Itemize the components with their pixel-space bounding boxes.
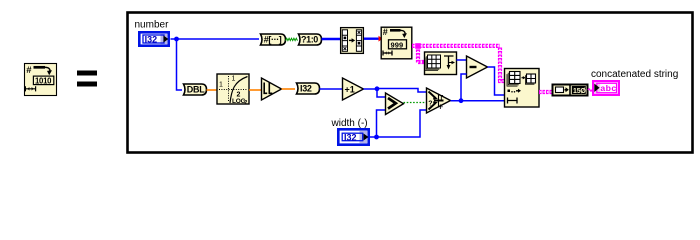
node: concatenate strings (compact) [553,84,588,97]
svg-text:I32: I32 [145,34,158,44]
svg-text:#[···]: #[···] [264,35,282,45]
svg-text:1010: 1010 [35,76,52,85]
svg-text:2: 2 [245,100,248,106]
node: Number To Boolean Array #[...] [261,34,286,45]
equals sign [77,71,97,87]
wire: branch down to DBL [177,39,183,90]
wire: DBL to log2 (orange) [207,89,218,91]
wire: floor to I32 (orange) [282,88,296,90]
svg-text:#: # [26,65,32,76]
junction dot [374,135,379,140]
junction dot [375,86,380,91]
terminal: width I32 control [338,129,368,144]
node: Subtract [467,56,488,78]
svg-text:DBL: DBL [187,85,205,95]
wire: string array chain from 999 output [412,43,505,81]
svg-text:F: F [440,105,444,111]
svg-text:I32: I32 [344,133,357,143]
wire: select out to concat [451,100,505,102]
svg-text:999: 999 [391,40,404,49]
wire: down to greater top input [377,89,385,97]
junction dot [459,98,464,103]
indicator: concatenated string (abc) [593,81,619,95]
wire: I32 to +1 [320,88,343,90]
svg-text:#: # [383,27,388,37]
node: Greater? [386,93,404,115]
wire: boolean dotted to select [404,102,427,104]
svg-text:width (-): width (-) [331,118,368,129]
wire: log2 to floor (orange) [249,89,261,91]
wire: int array to reverse [322,38,341,40]
node: Select [427,88,451,113]
svg-text:concatenated string: concatenated string [591,69,678,80]
wire: width up to greater bottom input [377,110,386,137]
svg-text:+1: +1 [345,85,355,95]
wire: boolean array zigzag green [286,38,298,40]
svg-text:I32: I32 [300,84,312,94]
svg-text:abc: abc [600,83,616,93]
wire: width out [370,110,426,137]
node: Logarithm Base 2 [217,74,249,106]
svg-text:?: ? [428,101,432,108]
svg-text:1: 1 [219,82,223,89]
subVI: number to digit string (999 icon) [381,27,412,59]
svg-text:T: T [440,96,444,102]
svg-text:1: 1 [232,76,236,83]
coercion dot (red) [379,36,383,42]
terminal: number (I32 control) [139,32,168,45]
wire: number terminal to #[..] node [171,38,260,40]
wire: subtract out, down to concat [488,67,505,95]
node: Round Toward -Infinity (floor) [262,78,282,100]
subVI: concatenate padded string block [505,69,540,108]
wire: reversed array to 999 VI [364,38,379,40]
junction dot [174,37,179,42]
node: DBL conversion [184,84,207,95]
wire: +1 out to select (top) [364,89,427,93]
node: Array Size [425,52,457,75]
svg-text:?1:0: ?1:0 [301,35,318,45]
node: Increment +1 [343,78,364,100]
wire: concat out chain [539,90,553,94]
svg-text:15Ø: 15Ø [573,88,586,95]
node: To Long Integer I32 [297,83,320,94]
node: Boolean To (0,1) ?1:0 [299,34,322,45]
node: Reverse 1D Array [341,28,364,54]
wire: up to subtract bottom input [461,74,467,101]
wire: size to subtract [457,59,467,61]
VI icon (number to binary string) left of equals [25,64,57,96]
svg-text:number: number [135,20,170,31]
diagram frame [128,13,693,153]
wire: string squiggle to indicator [588,89,594,91]
